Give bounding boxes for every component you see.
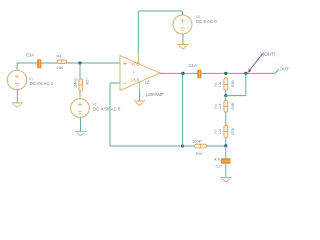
wire: output line — [160, 72, 275, 74]
capacitor C1 — [197, 70, 201, 79]
wire: VSS pin down to ground — [139, 90, 141, 101]
svg-text:OUT: OUT — [280, 67, 290, 72]
svg-text:R2*: R2* — [85, 78, 89, 85]
node: divider mid junction — [224, 94, 227, 97]
svg-text:4.7u: 4.7u — [214, 157, 222, 162]
voltage source V1 — [7, 70, 26, 89]
ground under V1 — [12, 103, 23, 107]
voltage source V3 — [173, 15, 192, 34]
capacitor C2 — [221, 158, 231, 164]
probe v(OUT) — [248, 54, 263, 73]
node: divider top junction — [224, 72, 227, 75]
wire: V3 to ground — [182, 34, 184, 45]
svg-text:10k: 10k — [218, 81, 222, 87]
resistor R4 — [57, 60, 67, 64]
wire: R7 to bottom junction — [225, 137, 227, 146]
node: bias junction on input line — [78, 61, 81, 64]
svg-text:R4: R4 — [57, 54, 63, 59]
wire: top rail to V3 — [138, 10, 182, 12]
svg-text:10k: 10k — [218, 103, 222, 109]
svg-text:R6B: R6B — [231, 102, 235, 109]
resistor R2 — [79, 79, 83, 91]
net flag OUT tick — [275, 70, 279, 74]
node: feedback bottom junction — [181, 144, 184, 147]
svg-text:R7B: R7B — [231, 127, 235, 134]
svg-text:R1*: R1* — [196, 151, 203, 156]
svg-text:VSS: VSS — [131, 78, 140, 83]
ground under V3 — [177, 45, 188, 49]
wire: loop bottom horizontal — [226, 95, 246, 97]
wire: R1 row — [183, 145, 226, 147]
wire: inverting input stub — [110, 82, 120, 84]
wire: junction down to R2 — [79, 63, 81, 79]
svg-text:DC 4.5V AC 0: DC 4.5V AC 0 — [93, 107, 121, 112]
wire: R6 to R7 — [225, 112, 227, 125]
wire: C2 to ground — [225, 164, 227, 178]
wire: VDD pin up — [137, 11, 139, 55]
svg-text:1Meg: 1Meg — [74, 79, 78, 89]
wire: loop right vertical — [245, 73, 247, 95]
svg-text:10k: 10k — [218, 128, 222, 134]
svg-text:DC 9 AC 0: DC 9 AC 0 — [196, 19, 217, 24]
svg-text:µOPAMP: µOPAMP — [146, 92, 164, 97]
wire: feedback left vertical — [109, 83, 111, 146]
wire: output to feedback vertical — [182, 73, 184, 146]
resistor R1 — [195, 144, 207, 148]
svg-text:100k*: 100k* — [192, 138, 203, 143]
wire: V3 top stub — [182, 11, 184, 15]
wire: R2 to V2 — [79, 91, 81, 99]
resistor R6 — [224, 100, 228, 112]
op-amp U1 — [120, 55, 160, 91]
svg-text:C3A: C3A — [26, 53, 34, 58]
wire: input line V1 to op-amp + input — [17, 62, 120, 64]
ground under V2 — [75, 131, 86, 135]
node: output junction — [181, 72, 184, 75]
svg-text:C2*: C2* — [216, 164, 223, 169]
capacitor C3 — [37, 59, 41, 68]
resistor R5 — [224, 78, 228, 90]
svg-text:v(OUT): v(OUT) — [261, 51, 277, 56]
svg-text:R5B: R5B — [231, 80, 235, 87]
ground under C2 — [220, 178, 231, 182]
svg-text:DC 0V AC 1: DC 0V AC 1 — [30, 81, 54, 86]
svg-text:C1A: C1A — [189, 63, 197, 68]
node: probe junction — [244, 72, 247, 75]
svg-text:VDD: VDD — [131, 62, 140, 67]
wire: junction to C2 — [225, 146, 227, 158]
resistor R7 — [224, 125, 228, 137]
wire: V1 top stub — [16, 63, 18, 70]
node: divider bottom junction — [224, 144, 227, 147]
svg-text:20k: 20k — [57, 65, 63, 70]
wire: node B to R6 — [225, 96, 227, 101]
ground under op-amp VSS — [134, 101, 145, 105]
wire: V2 to ground — [80, 117, 82, 131]
voltage source V2 — [71, 99, 90, 118]
wire: V1 to ground stub — [16, 90, 18, 103]
svg-text:µ1: µ1 — [145, 79, 150, 84]
wire: R5 to node B — [225, 90, 227, 95]
wire: feedback bottom horizontal — [110, 145, 183, 147]
